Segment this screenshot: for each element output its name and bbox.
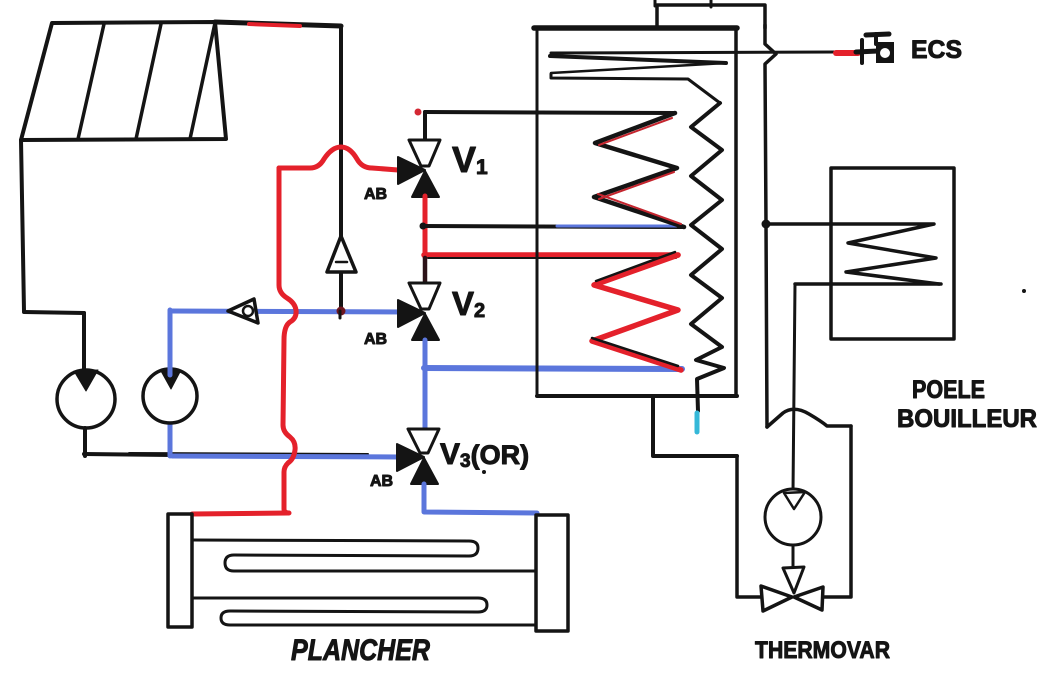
wire: thin black over blue return [129, 453, 368, 454]
stove POELE BOUILLEUR box [831, 168, 954, 339]
wire: circle to valve [792, 545, 795, 568]
solar panel collector [21, 22, 226, 140]
svg-text:BOUILLEUR: BOUILLEUR [897, 405, 1037, 433]
pump P2 [143, 369, 197, 423]
wire: right leg down to thermovar valve [824, 426, 851, 597]
floor heating upper serpentine [192, 540, 536, 571]
wire: blue return line to V3 [172, 456, 400, 457]
svg-text:PLANCHER: PLANCHER [291, 634, 430, 667]
chimney box on tank top [655, 0, 765, 28]
stove coil [768, 224, 939, 284]
cyan tank drain tick [695, 413, 700, 432]
wire: red hot from corner to V1 with bump over black line [279, 147, 398, 170]
vertical zigzag exchanger in tank [691, 103, 724, 411]
svg-text:AB: AB [364, 186, 387, 203]
wire: blue V2 bottom down [423, 340, 428, 429]
wire: blue pump P2 top up [168, 310, 173, 375]
floor heating left manifold [168, 514, 192, 627]
ECS coil flat zigzag in tank top [550, 56, 726, 63]
node: junction to stove [762, 220, 771, 229]
node: junction dot black/blue [337, 307, 346, 316]
ECS outlet pipe [551, 52, 836, 53]
svg-text:V2: V2 [452, 285, 485, 322]
svg-text:V1: V1 [452, 139, 488, 180]
svg-text:ECS: ECS [911, 36, 962, 64]
black shadows on lower coil [596, 252, 675, 281]
valve V1 [398, 109, 440, 198]
wire: continue down to crossover [766, 224, 767, 427]
stray dot [1022, 289, 1026, 293]
valve V2 [398, 283, 440, 340]
valve V3 [397, 429, 439, 484]
wire: down to left pump [82, 313, 86, 376]
svg-text:POELE: POELE [912, 376, 985, 404]
red shadows on upper coil [599, 118, 672, 145]
wire: blue horizontal to V2 [170, 311, 407, 312]
svg-text:AB: AB [370, 473, 393, 490]
floor heating lower serpentine [192, 598, 536, 625]
svg-text:AB: AB [364, 331, 387, 348]
wire: red overlay on top line [249, 24, 300, 26]
red dash before faucet [836, 50, 858, 56]
faucet ECS [856, 34, 894, 63]
wire: blue V3 bottom to right manifold [424, 484, 537, 513]
wire: red vertical down to floor with crossover wiggles [279, 168, 296, 513]
floor heating right manifold [536, 515, 568, 631]
wire: blue overlay on coil return [557, 225, 676, 228]
lower coil red zigzag [592, 255, 681, 370]
wire: crossover bump to right leg [767, 409, 851, 427]
wire: blue up from return to pump P2 [168, 424, 173, 456]
wire: thin black under red horizontal [428, 257, 676, 259]
check valve arrow up on black line [327, 236, 356, 272]
wire: blue horizontal to tank bottom coil [424, 368, 682, 369]
svg-text:THERMOVAR: THERMOVAR [755, 637, 890, 664]
wire: black V1 top to tank coil [425, 112, 675, 113]
wire: right vertical with bump at ECS pipe [765, 25, 776, 224]
tank [534, 28, 737, 396]
wire: black coil return to tank [422, 226, 684, 227]
thermovar pump circle [765, 489, 821, 545]
wire: black horizontal to blue junction [84, 454, 172, 455]
upper coil black zigzag [594, 113, 684, 227]
wire: panel left side down [21, 140, 24, 311]
svg-text:V3(OR): V3(OR) [440, 438, 529, 472]
wire: panel top to corner (hot out) [215, 22, 341, 26]
thermovar 3-way valve [761, 567, 823, 611]
flow arrow left on blue line [228, 299, 258, 323]
wire: black vertical from panel corner down [339, 26, 343, 310]
wire: tank bottom to thermovar left leg [653, 396, 737, 456]
wire: red V1 bottom down [423, 196, 428, 257]
wire: left pump down [83, 428, 87, 456]
wire: bottom left horizontal [24, 312, 84, 313]
wire: dark stub red junction to V2 [423, 258, 428, 284]
pump P1 (solar) [57, 370, 115, 428]
wire: stove coil down to thermovar pump [793, 284, 795, 492]
wire: red horizontal to lower coil [424, 252, 678, 258]
wire: red horizontal into floor manifold [192, 513, 288, 514]
